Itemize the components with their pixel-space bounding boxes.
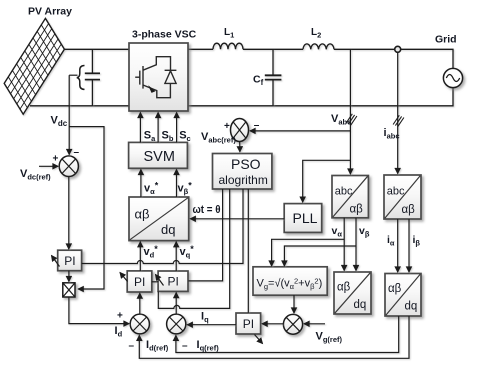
wire Sb SVM to VSC — [157, 113, 159, 143]
transform block dq to alpha-beta — [129, 197, 189, 241]
svg-text:+: + — [117, 311, 123, 322]
tuning arrow PIc — [156, 275, 164, 286]
PI controller PIc (q-axis) — [158, 271, 188, 291]
IGBT Q1 — [135, 57, 170, 98]
transform block abc to alpha-beta (voltage) — [332, 176, 368, 218]
wire top DC rail from PV to VSC — [64, 48, 129, 50]
filter capacitor Cf — [265, 49, 282, 106]
transform block alpha-beta to dq (current) — [385, 274, 421, 317]
svg-text:3-phase VSC: 3-phase VSC — [132, 29, 197, 41]
PI controller PId (Vg loop) — [236, 313, 261, 334]
brace at DC link — [77, 66, 85, 90]
wire Vg sum to PId — [262, 323, 283, 325]
svg-text:PV Array: PV Array — [28, 6, 72, 18]
svg-text:αβ: αβ — [337, 282, 351, 294]
PLL block — [284, 204, 322, 233]
wire Vdc(ref) into junction — [39, 165, 58, 167]
wire valpha* dq2ab to SVM — [140, 170, 142, 198]
three-phase mark Vabc — [346, 114, 357, 125]
inductor L1 — [213, 43, 243, 49]
svg-text:PSO: PSO — [231, 156, 261, 172]
summing junction Id error — [130, 314, 149, 334]
wire branch to PLL — [303, 160, 351, 202]
wire PSO line to PId top — [247, 189, 249, 313]
svg-text:αβ: αβ — [135, 207, 150, 222]
DC link capacitor — [85, 49, 100, 106]
wire bottom DC rail from PV to VSC — [30, 105, 129, 107]
wire top AC rail L1 to L2 — [243, 48, 303, 50]
wire Vabc(ref) sum to PSO — [239, 142, 241, 152]
wire Vdc tap down to summing junction — [68, 75, 70, 154]
inductor L2 — [303, 44, 334, 49]
svg-text:αβ: αβ — [402, 204, 416, 216]
wire iabc sense line — [397, 52, 399, 173]
wire top AC rail L2 to grid source — [334, 49, 453, 68]
svg-text:–: – — [182, 341, 188, 352]
wire multiplier output Id — [69, 297, 129, 324]
transform block abc to alpha-beta (current) — [384, 175, 421, 219]
summing junction Vg error — [283, 314, 302, 334]
tuning arrow PId — [255, 335, 263, 344]
Vg magnitude block — [253, 267, 327, 295]
svg-text:dq: dq — [161, 222, 175, 237]
PV array panel — [4, 18, 64, 114]
wire iq feedback to Iq sum — [176, 316, 399, 353]
svg-text:ωt = θ: ωt = θ — [193, 204, 221, 216]
multiplier box — [63, 283, 75, 297]
Vdc tap stub — [69, 74, 77, 76]
svg-text:PI: PI — [134, 275, 145, 289]
summing junction Vdc error — [59, 156, 78, 177]
grid AC source — [443, 68, 462, 87]
tuning arrow PIa — [52, 256, 60, 267]
wire bottom AC rail VSC to grid source — [188, 88, 453, 106]
wire Id error to PIb — [139, 293, 141, 314]
svg-text:αβ: αβ — [350, 204, 364, 216]
wire Vabc sense line — [349, 49, 351, 174]
summing junction Iq error — [167, 314, 186, 334]
tuning arrow PIb — [120, 273, 128, 282]
svg-text:–: – — [129, 341, 135, 352]
wire PSO loop line to PIc bottom corner — [158, 189, 229, 308]
three-phase mark iabc — [393, 115, 404, 126]
svg-text:αβ: αβ — [388, 283, 402, 295]
PI controller PIa (Vdc loop) — [58, 250, 82, 271]
diode D1 — [165, 70, 177, 83]
svg-text:PI: PI — [168, 275, 179, 289]
PSO algorithm block — [213, 154, 272, 190]
VSC converter block — [129, 43, 188, 111]
wire PIa to multiplier — [68, 271, 70, 282]
svg-text:alogrithm: alogrithm — [219, 173, 268, 187]
wire valpha to ab2dq A — [343, 218, 345, 271]
wire Vdc feedforward branch — [69, 127, 104, 289]
svg-text:–: – — [74, 147, 80, 158]
wire id feedback to Id sum — [139, 316, 409, 358]
wire PLL omega-t output to dq2ab — [190, 218, 284, 220]
wire Iq error to PIc — [175, 293, 177, 315]
wire top AC rail VSC to L1 — [188, 48, 213, 50]
wire Vg(ref) into sum — [304, 323, 325, 325]
svg-text:+: + — [224, 121, 230, 132]
svg-text:Grid: Grid — [435, 34, 457, 46]
wire Sa SVM to VSC — [139, 113, 141, 143]
wire PSO line to PIc right — [189, 189, 223, 281]
wire vd* PIb to dq2ab — [139, 242, 141, 271]
wire PId output Iq to Iq sum — [187, 324, 236, 326]
wire ialpha to ab2dq B — [397, 219, 399, 272]
svg-text:PLL: PLL — [293, 210, 318, 226]
transform block alpha-beta to dq (voltage) — [334, 272, 371, 314]
svg-text:dq: dq — [354, 299, 367, 311]
PI controller PIb (d-axis) — [127, 271, 152, 292]
wire Vabc feedback into Vabc sum — [250, 130, 350, 132]
svg-text:SVM: SVM — [144, 149, 175, 165]
svg-text:abc: abc — [335, 186, 353, 198]
svg-text:PI: PI — [64, 254, 75, 268]
svg-text:abc: abc — [387, 186, 405, 198]
wire vbeta* dq2ab to SVM — [176, 170, 178, 198]
wire ibeta to ab2dq B — [408, 219, 410, 272]
wire PSO tuning line to PIa — [82, 189, 243, 264]
wire valpha branch to Vg block — [272, 239, 345, 266]
wire vq* PIc to dq2ab — [175, 242, 177, 271]
svg-text:–: – — [254, 120, 260, 131]
wire PIb to PIc link — [152, 281, 158, 283]
wire Sc SVM to VSC — [176, 113, 178, 143]
wire vbeta to ab2dq A — [355, 218, 357, 271]
node junction on grid rail — [395, 46, 401, 52]
svg-text:dq: dq — [405, 301, 418, 313]
svg-text:+: + — [53, 154, 59, 165]
wire Vdc error to PIa — [68, 177, 70, 250]
IGBT emitter arrow — [148, 85, 155, 93]
summing junction Vabc error — [231, 119, 249, 142]
wire vbeta branch to Vg block — [284, 246, 356, 266]
svg-text:PI: PI — [243, 317, 254, 331]
wire Vg block to Vg sum — [293, 295, 295, 313]
SVM block — [129, 142, 188, 168]
